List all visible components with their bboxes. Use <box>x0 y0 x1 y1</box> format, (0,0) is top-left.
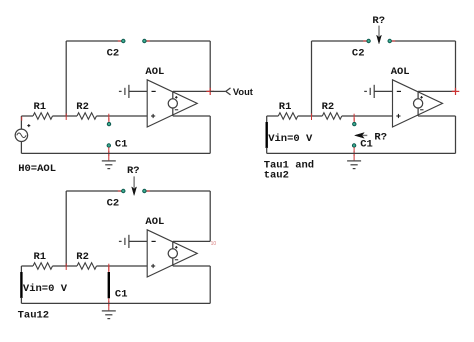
svg-text:R1: R1 <box>34 251 47 263</box>
svg-text:AOL: AOL <box>145 216 164 228</box>
svg-text:AOL: AOL <box>391 66 410 78</box>
svg-text:Vin=0 V: Vin=0 V <box>268 133 313 145</box>
svg-text:R1: R1 <box>34 101 47 113</box>
svg-text:R1: R1 <box>279 101 292 113</box>
svg-text:R?: R? <box>127 165 140 177</box>
svg-text:C2: C2 <box>107 47 120 59</box>
svg-text:10: 10 <box>211 241 217 247</box>
svg-text:Vout: Vout <box>233 87 253 97</box>
svg-text:C2: C2 <box>352 47 365 59</box>
svg-text:tau2: tau2 <box>264 169 289 181</box>
svg-text:C1: C1 <box>360 139 373 151</box>
svg-text:C2: C2 <box>107 197 120 209</box>
svg-text:C1: C1 <box>115 289 128 301</box>
svg-text:AOL: AOL <box>145 66 164 78</box>
svg-text:Tau12: Tau12 <box>18 310 50 322</box>
svg-text:Vin=0 V: Vin=0 V <box>23 283 68 295</box>
svg-text:H0=AOL: H0=AOL <box>18 163 56 175</box>
svg-text:R2: R2 <box>76 251 89 263</box>
svg-text:R?: R? <box>372 15 385 27</box>
svg-text:R2: R2 <box>76 101 89 113</box>
svg-text:C1: C1 <box>115 139 128 151</box>
svg-text:R2: R2 <box>322 101 335 113</box>
svg-text:R?: R? <box>374 131 387 143</box>
